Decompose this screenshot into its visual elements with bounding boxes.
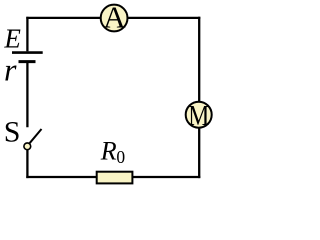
wire right (top-right corner to bottom-right corner, through motor) <box>198 17 200 178</box>
label R0 <box>100 136 126 166</box>
svg-text:R: R <box>100 136 117 165</box>
wire left middle (battery negative plate down to switch) <box>26 62 28 128</box>
svg-text:E: E <box>3 23 21 53</box>
switch S pivot terminal <box>24 143 31 150</box>
svg-text:0: 0 <box>116 147 125 167</box>
wire left lower (switch to bottom-left corner) <box>26 150 28 178</box>
svg-text:A: A <box>103 0 126 35</box>
svg-text:S: S <box>4 115 21 148</box>
wire top (battery stub to ammeter to top-right corner) <box>26 17 200 19</box>
switch S blade <box>30 129 42 143</box>
battery negative plate (short) <box>19 60 36 63</box>
wire left upper (top-left corner down to battery positive plate) <box>26 17 28 52</box>
wire bottom (bottom-right corner to switch column, through resistor) <box>26 176 200 178</box>
ammeter A <box>101 0 128 35</box>
svg-text:M: M <box>188 101 209 132</box>
battery positive plate (long) <box>12 51 43 54</box>
svg-text:r: r <box>4 52 17 88</box>
resistor R0 body <box>97 172 133 184</box>
motor M <box>186 101 212 132</box>
